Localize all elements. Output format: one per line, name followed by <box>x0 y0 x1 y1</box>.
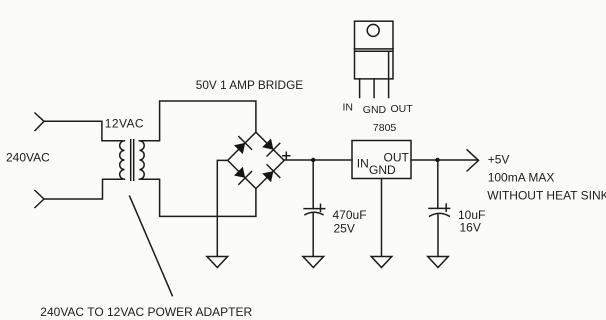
TO-220 pin2 <box>373 79 375 98</box>
ground U1 <box>371 257 392 268</box>
wire C1 to ground <box>312 213 314 256</box>
bridge rectifier diamond <box>228 132 284 188</box>
svg-text:7805: 7805 <box>373 122 397 134</box>
svg-text:WITHOUT HEAT SINK: WITHOUT HEAT SINK <box>487 189 606 203</box>
diode D4 bottom-right (points to right vertex) <box>262 171 273 182</box>
diode D1 top-left (points to top vertex) <box>234 143 245 154</box>
diode D3 bottom-left (points to bottom vertex) <box>234 167 245 178</box>
ground bridge <box>207 257 228 268</box>
svg-text:240VAC: 240VAC <box>6 151 50 165</box>
connector J1 top input <box>35 113 44 131</box>
wire C2 to ground <box>437 215 439 256</box>
svg-text:16V: 16V <box>460 221 481 235</box>
TO-220 package tab <box>355 21 394 49</box>
svg-text:12VAC: 12VAC <box>105 116 144 130</box>
diode D1 bar <box>239 137 252 150</box>
wire secondary bottom to bridge bottom <box>139 179 256 216</box>
transformer T1 primary winding <box>120 141 125 179</box>
wire U1 GND pin <box>381 179 383 257</box>
wire regulator out <box>411 159 478 161</box>
svg-text:100mA MAX: 100mA MAX <box>488 171 555 185</box>
regulator U1 box <box>352 141 411 179</box>
wire to C1 <box>312 160 314 209</box>
ground C2 <box>428 257 449 268</box>
svg-text:IN: IN <box>357 157 369 171</box>
diode D4 bar <box>267 165 280 178</box>
wire bridge + to regulator <box>284 159 352 161</box>
diode D2 top-right (points to right vertex) <box>262 139 273 150</box>
connector J2 bottom input <box>35 191 44 208</box>
capacitor C1 470uF plates <box>304 209 325 215</box>
node junction C1 <box>311 158 315 162</box>
node junction C2 <box>435 158 439 162</box>
annotation pointer line <box>130 196 173 296</box>
svg-text:25V: 25V <box>334 221 355 235</box>
capacitor C1 plus <box>320 204 322 211</box>
svg-text:GND: GND <box>369 163 396 177</box>
TO-220 body <box>355 49 394 79</box>
output arrow +5V <box>467 150 478 171</box>
capacitor C2 10uF plates <box>429 208 450 216</box>
wire bottom primary <box>44 179 122 199</box>
transformer T1 core <box>131 140 134 180</box>
svg-text:240VAC TO 12VAC POWER ADAPTER: 240VAC TO 12VAC POWER ADAPTER <box>40 305 252 319</box>
svg-text:OUT: OUT <box>391 103 414 115</box>
plus sign at bridge + output <box>283 152 290 159</box>
TO-220 body inner line / pin3 <box>388 51 390 97</box>
svg-text:GND: GND <box>363 104 387 116</box>
wire top primary <box>44 121 122 141</box>
wire to C2 <box>437 160 439 208</box>
ground C1 <box>303 257 324 268</box>
TO-220 mounting hole <box>367 24 379 36</box>
transformer T1 secondary winding <box>139 141 144 179</box>
TO-220 pin1 <box>359 79 361 98</box>
svg-text:IN: IN <box>343 102 354 114</box>
svg-text:+5V: +5V <box>488 152 510 166</box>
capacitor C2 plus <box>445 204 447 211</box>
wire bridge AC2 to ground <box>217 160 227 256</box>
svg-text:50V 1 AMP BRIDGE: 50V 1 AMP BRIDGE <box>196 78 303 92</box>
wire secondary top to bridge top <box>139 101 256 141</box>
diode D3 bar <box>239 172 252 185</box>
diode D2 bar <box>267 143 280 156</box>
svg-text:470uF: 470uF <box>333 208 367 222</box>
